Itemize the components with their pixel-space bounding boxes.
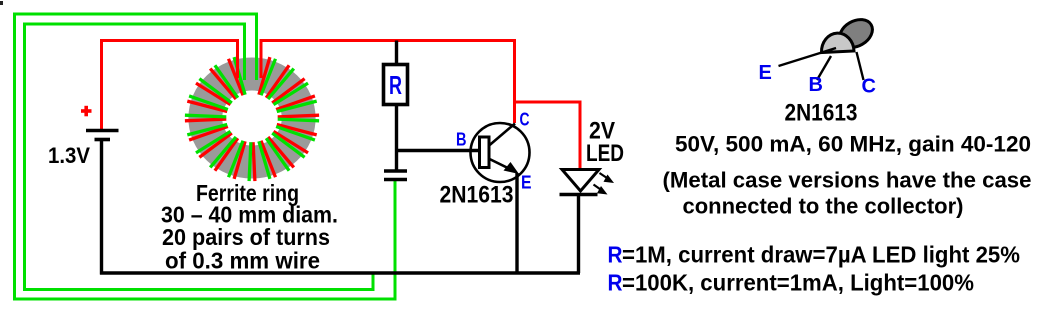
wire: green feedback winding end (inner loop) to ground rail <box>25 24 374 290</box>
svg-text:B: B <box>809 74 823 96</box>
svg-text:C: C <box>862 76 876 98</box>
LED D1 cathode bar <box>560 193 598 197</box>
transistor Q1 base bar <box>480 137 490 168</box>
toroid T1 windings (20 pairs red/green) <box>185 57 319 181</box>
svg-text:R: R <box>608 242 623 268</box>
wire: red branch from collector node to LED anode <box>515 102 581 170</box>
LED D1 triangle (anode) <box>562 170 599 192</box>
svg-text:E: E <box>521 173 532 193</box>
toroid T1 ferrite core <box>188 57 315 178</box>
wire: emitter to ground rail <box>515 173 518 275</box>
wire: ground rail (battery - to LED cathode) <box>100 271 580 274</box>
transistor Q1 body circle <box>471 123 530 182</box>
svg-text:=1M, current draw=7µA LED ligh: =1M, current draw=7µA LED light 25% <box>622 242 1020 268</box>
wire: red from toroid primary to collector node <box>261 41 515 124</box>
svg-text:of 0.3 mm wire: of 0.3 mm wire <box>165 248 320 274</box>
svg-text:2N1613: 2N1613 <box>440 182 514 209</box>
svg-text:R: R <box>389 70 402 100</box>
transistor can face (light) <box>821 33 854 52</box>
battery B1 positive plate <box>86 129 119 133</box>
svg-text:=100K, current=1mA, Light=100%: =100K, current=1mA, Light=100% <box>622 270 974 296</box>
svg-text:20 pairs of turns: 20 pairs of turns <box>162 224 330 250</box>
wire: LED cathode to ground rail <box>577 196 580 273</box>
svg-text:(Metal case versions have the: (Metal case versions have the case <box>663 168 1032 193</box>
transistor Q1 collector lead <box>489 124 516 147</box>
wire: red from battery + up and to toroid primary <box>102 41 238 131</box>
svg-text:50V, 500 mA, 60 MHz, gain 40-1: 50V, 500 mA, 60 MHz, gain 40-120 <box>675 132 1031 157</box>
svg-text:C: C <box>520 110 530 130</box>
transistor can body (dark) <box>835 14 878 53</box>
battery + polarity sign <box>81 106 92 117</box>
svg-text:connected to the collector): connected to the collector) <box>683 194 964 219</box>
wire: base wire from junction to transistor base <box>397 149 481 152</box>
can lead C <box>857 52 864 80</box>
svg-text:B: B <box>456 130 467 150</box>
transistor Q1 emitter lead with arrow <box>489 159 515 172</box>
capacitor C1 bottom plate <box>384 178 407 181</box>
resistor R (box) <box>384 65 408 105</box>
can lead E <box>779 48 837 66</box>
svg-text:2N1613: 2N1613 <box>785 100 858 127</box>
wire: battery negative to ground rail <box>100 140 103 275</box>
svg-text:E: E <box>759 62 772 84</box>
wire: collector node down through resistor R to base/capacitor junction <box>395 41 398 170</box>
capacitor C1 top plate <box>384 169 407 172</box>
stray mark top-left <box>0 1 3 5</box>
wire: green feedback winding end (outer loop) to capacitor <box>15 14 396 299</box>
svg-text:R: R <box>608 270 623 296</box>
LED light arrow 2 <box>594 185 603 191</box>
can lead B <box>817 56 831 80</box>
battery B1 negative plate <box>95 138 111 142</box>
svg-text:1.3V: 1.3V <box>48 143 90 168</box>
svg-text:LED: LED <box>586 140 624 167</box>
LED light arrow 1 <box>600 173 609 179</box>
